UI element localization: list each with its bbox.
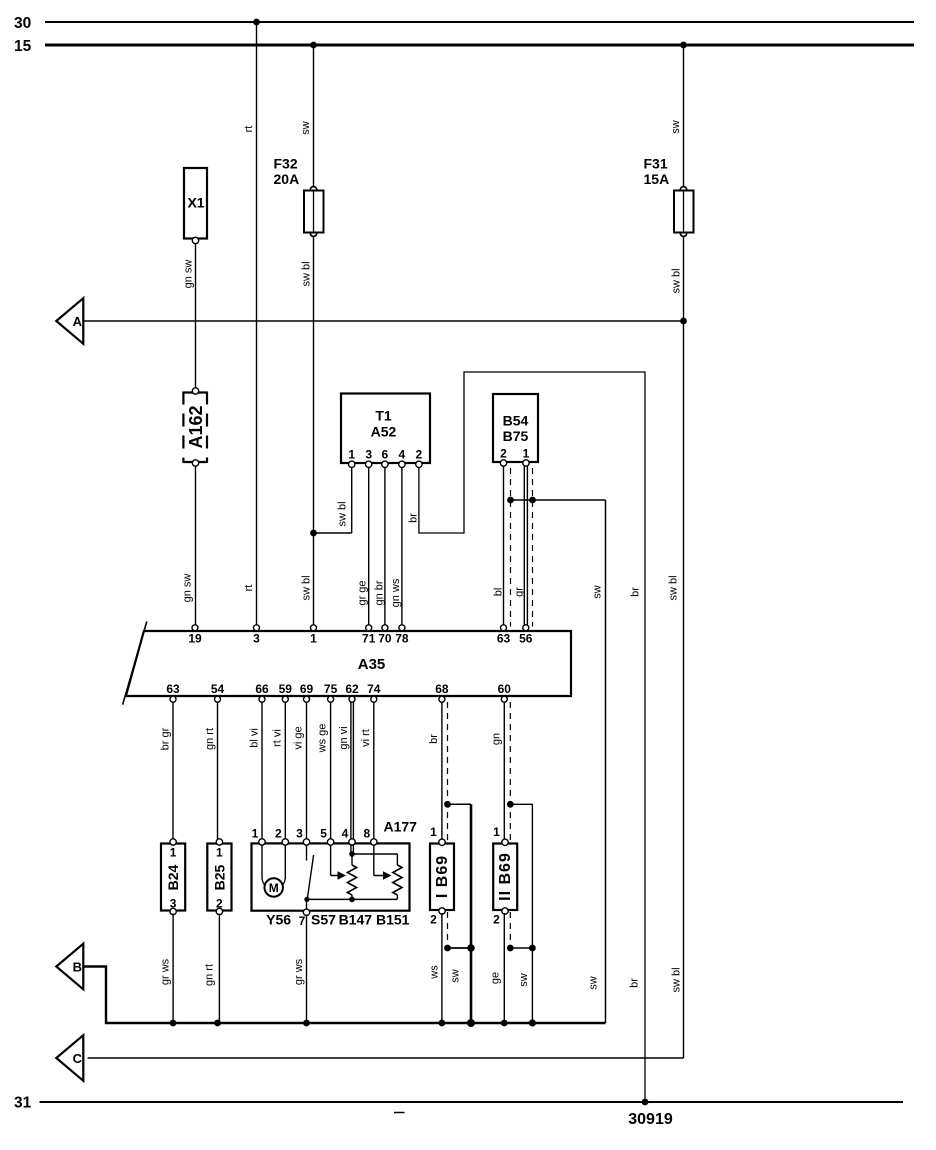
svg-text:bl vi: bl vi <box>249 728 261 748</box>
svg-text:gn sw: gn sw <box>182 574 194 603</box>
svg-text:78: 78 <box>395 632 409 646</box>
svg-text:Y56: Y56 <box>266 912 291 928</box>
svg-text:gn rt: gn rt <box>204 728 216 750</box>
svg-text:3: 3 <box>170 897 177 911</box>
svg-text:15: 15 <box>14 38 32 55</box>
svg-text:B: B <box>73 959 82 974</box>
svg-text:4: 4 <box>342 827 349 841</box>
svg-text:B75: B75 <box>503 428 529 444</box>
svg-text:sw bl: sw bl <box>337 501 349 526</box>
svg-text:sw: sw <box>670 120 682 134</box>
svg-text:2: 2 <box>275 827 282 841</box>
svg-text:1: 1 <box>493 825 500 839</box>
svg-text:2: 2 <box>500 447 507 461</box>
svg-text:20A: 20A <box>274 171 300 187</box>
svg-text:sw bl: sw bl <box>671 268 683 293</box>
svg-text:6: 6 <box>382 448 389 462</box>
svg-text:75: 75 <box>324 682 338 696</box>
svg-text:3: 3 <box>253 632 260 646</box>
svg-text:br: br <box>629 978 641 988</box>
svg-text:rt: rt <box>243 126 255 133</box>
svg-text:19: 19 <box>188 632 202 646</box>
svg-text:br: br <box>408 513 420 523</box>
svg-text:gr: gr <box>514 587 526 597</box>
svg-text:gn sw: gn sw <box>183 260 195 289</box>
svg-text:A177: A177 <box>384 819 418 835</box>
svg-text:B151: B151 <box>376 912 410 928</box>
svg-text:A35: A35 <box>358 656 386 673</box>
svg-text:vi ge: vi ge <box>293 726 305 749</box>
svg-text:rt: rt <box>243 585 255 592</box>
svg-text:54: 54 <box>211 682 225 696</box>
svg-text:60: 60 <box>498 682 512 696</box>
svg-text:66: 66 <box>255 682 269 696</box>
svg-text:T1: T1 <box>375 408 392 424</box>
svg-text:ws: ws <box>429 965 441 980</box>
svg-text:3: 3 <box>365 448 372 462</box>
svg-text:4: 4 <box>399 448 406 462</box>
svg-text:A52: A52 <box>371 424 397 440</box>
svg-text:M: M <box>269 881 279 895</box>
svg-text:S57: S57 <box>311 912 336 928</box>
svg-text:59: 59 <box>279 682 293 696</box>
svg-text:sw bl: sw bl <box>301 575 313 600</box>
svg-text:7: 7 <box>299 914 306 928</box>
svg-text:B24: B24 <box>165 864 181 890</box>
svg-text:3: 3 <box>296 827 303 841</box>
svg-text:rt vi: rt vi <box>272 729 284 747</box>
svg-text:F32: F32 <box>274 156 298 172</box>
svg-text:63: 63 <box>166 682 180 696</box>
svg-text:sw: sw <box>592 585 604 599</box>
svg-text:15A: 15A <box>644 171 670 187</box>
svg-text:31: 31 <box>14 1095 32 1112</box>
svg-text:sw bl: sw bl <box>671 967 683 992</box>
svg-text:30919: 30919 <box>628 1111 673 1128</box>
svg-text:sw bl: sw bl <box>301 261 313 286</box>
svg-text:8: 8 <box>363 827 370 841</box>
svg-text:1: 1 <box>170 846 177 860</box>
svg-text:2: 2 <box>416 448 423 462</box>
svg-text:2: 2 <box>430 913 437 927</box>
svg-text:1: 1 <box>252 827 259 841</box>
svg-text:gn rt: gn rt <box>204 964 216 986</box>
svg-text:74: 74 <box>367 682 381 696</box>
svg-text:gn br: gn br <box>374 580 386 605</box>
svg-text:gr ge: gr ge <box>357 580 369 605</box>
svg-text:II B69: II B69 <box>497 852 514 901</box>
svg-text:sw: sw <box>588 976 600 990</box>
svg-text:1: 1 <box>430 825 437 839</box>
svg-text:69: 69 <box>300 682 314 696</box>
svg-text:B147: B147 <box>339 912 373 928</box>
svg-text:sw: sw <box>300 121 312 135</box>
svg-text:A162: A162 <box>186 405 206 448</box>
svg-text:br: br <box>630 587 642 597</box>
svg-text:B25: B25 <box>211 864 227 890</box>
svg-text:ge: ge <box>490 972 502 984</box>
svg-text:1: 1 <box>310 632 317 646</box>
svg-text:A: A <box>73 314 83 329</box>
svg-text:1: 1 <box>216 846 223 860</box>
svg-text:71: 71 <box>362 632 376 646</box>
svg-text:68: 68 <box>435 682 449 696</box>
svg-text:gn ws: gn ws <box>390 578 402 607</box>
svg-text:I B69: I B69 <box>434 855 451 898</box>
svg-text:gr ws: gr ws <box>160 958 172 985</box>
svg-text:sw: sw <box>450 969 462 983</box>
svg-text:2: 2 <box>493 913 500 927</box>
svg-text:5: 5 <box>320 827 327 841</box>
svg-text:63: 63 <box>497 632 511 646</box>
svg-text:62: 62 <box>345 682 359 696</box>
svg-text:br: br <box>428 734 440 744</box>
svg-text:2: 2 <box>216 897 223 911</box>
svg-text:X1: X1 <box>187 195 204 211</box>
svg-text:sw bl: sw bl <box>668 575 680 600</box>
svg-text:B54: B54 <box>503 413 529 429</box>
svg-text:F31: F31 <box>644 156 668 172</box>
svg-text:C: C <box>73 1051 83 1066</box>
svg-text:30: 30 <box>14 15 31 32</box>
svg-text:gn: gn <box>491 733 503 745</box>
svg-text:gn vi: gn vi <box>338 726 350 749</box>
svg-text:1: 1 <box>348 448 355 462</box>
svg-text:ws ge: ws ge <box>317 724 329 754</box>
svg-text:70: 70 <box>378 632 392 646</box>
svg-text:bl: bl <box>493 588 505 597</box>
svg-text:vi rt: vi rt <box>360 729 372 747</box>
svg-text:gr ws: gr ws <box>293 958 305 985</box>
svg-text:1: 1 <box>523 447 530 461</box>
svg-text:br gr: br gr <box>160 727 172 750</box>
svg-text:sw: sw <box>518 973 530 987</box>
svg-text:56: 56 <box>519 632 533 646</box>
